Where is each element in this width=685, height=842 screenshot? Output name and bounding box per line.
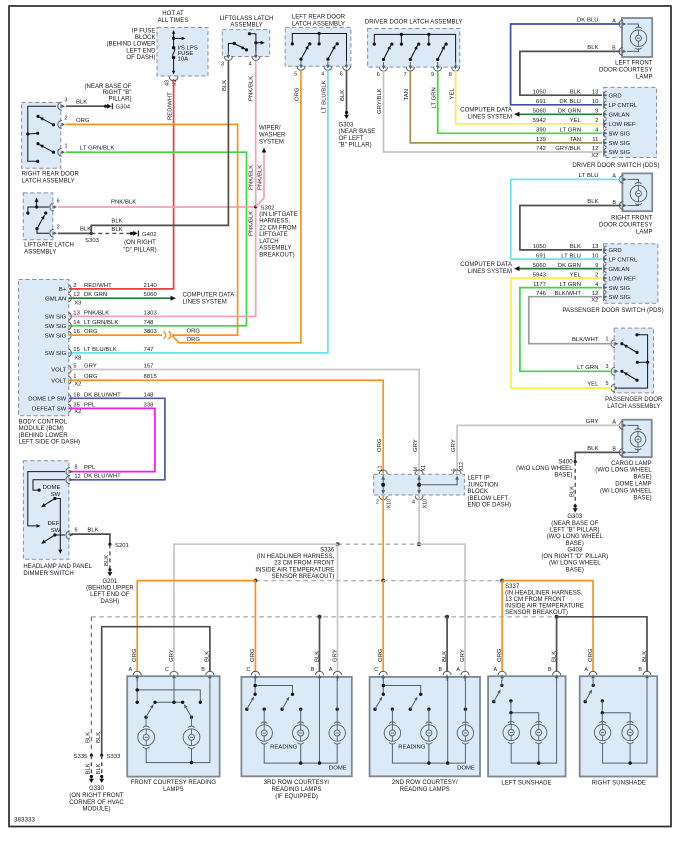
svg-text:SW SIG: SW SIG bbox=[45, 333, 67, 339]
svg-text:2: 2 bbox=[65, 116, 68, 122]
wire BLK 1050 lamp B to DDS GRD bbox=[520, 51, 621, 95]
sunshade switch bbox=[592, 684, 595, 687]
wire ORG BCM SW SIG to breakout bbox=[69, 334, 162, 336]
svg-text:C: C bbox=[374, 667, 378, 673]
splice S201 bbox=[108, 543, 111, 546]
passenger latch connector pin 5 bbox=[611, 384, 615, 392]
front lamp bulb 2 bbox=[183, 729, 200, 746]
reading switch blade 2 bbox=[409, 708, 412, 711]
svg-text:1: 1 bbox=[65, 144, 68, 150]
svg-text:VOLT: VOLT bbox=[51, 368, 66, 374]
left front door courtesy lamp box bbox=[622, 18, 652, 57]
svg-text:5: 5 bbox=[605, 381, 608, 387]
svg-text:PNK/BLK: PNK/BLK bbox=[249, 165, 255, 190]
svg-text:B: B bbox=[548, 667, 552, 673]
svg-text:35: 35 bbox=[73, 402, 80, 408]
svg-text:1303: 1303 bbox=[144, 310, 158, 316]
svg-text:G201: G201 bbox=[102, 579, 117, 585]
wire DK BLU 691 lamp A to DDS LP CNTRL bbox=[511, 24, 621, 105]
svg-text:"B" PILLAR): "B" PILLAR) bbox=[339, 143, 372, 149]
DDS pin 2 YEL LOW REF bbox=[604, 120, 607, 128]
svg-text:BLK: BLK bbox=[222, 80, 228, 91]
splice S337 bbox=[500, 579, 504, 583]
DDS pin 10 DK BLU LP CNTRL bbox=[604, 101, 607, 109]
node BLK bus left sunshade tap bbox=[555, 615, 559, 619]
wire DK GRN 5060 DDS GMLAN to computer data lines bbox=[516, 113, 602, 115]
svg-text:G330: G330 bbox=[89, 786, 104, 792]
driver door latch internals bbox=[374, 34, 455, 62]
svg-text:BLK: BLK bbox=[587, 45, 598, 51]
svg-text:GRD: GRD bbox=[609, 93, 622, 99]
svg-text:5: 5 bbox=[294, 72, 297, 78]
svg-text:8: 8 bbox=[449, 72, 452, 78]
body control module BCM box bbox=[19, 280, 69, 416]
reading lamp bulb 2 bbox=[421, 725, 437, 741]
svg-text:READING: READING bbox=[270, 745, 298, 751]
svg-text:DOME LP SW: DOME LP SW bbox=[28, 397, 66, 403]
bottom rail and pin B vertical bbox=[264, 744, 337, 764]
svg-text:ORG: ORG bbox=[250, 648, 256, 662]
svg-text:PASSENGER DOOR SWITCH (PDS): PASSENGER DOOR SWITCH (PDS) bbox=[562, 308, 663, 314]
svg-text:SYSTEM: SYSTEM bbox=[259, 139, 284, 145]
svg-text:(BEHIND LOWER: (BEHIND LOWER bbox=[107, 42, 157, 48]
svg-text:S303: S303 bbox=[85, 238, 100, 244]
svg-text:READING LAMPS: READING LAMPS bbox=[400, 787, 450, 793]
svg-text:2ND ROW COURTESY/: 2ND ROW COURTESY/ bbox=[392, 780, 458, 786]
svg-text:BLK: BLK bbox=[205, 651, 211, 662]
svg-text:LATCH ASSEMBLY: LATCH ASSEMBLY bbox=[607, 404, 660, 410]
right rear door latch assembly box bbox=[22, 103, 61, 169]
svg-text:RED/WHT: RED/WHT bbox=[84, 283, 112, 289]
svg-text:DK GRN: DK GRN bbox=[84, 292, 107, 298]
svg-text:SENSOR BREAKOUT): SENSOR BREAKOUT) bbox=[271, 574, 334, 580]
svg-text:S333: S333 bbox=[107, 754, 122, 760]
svg-text:748: 748 bbox=[144, 320, 155, 326]
svg-text:BASE): BASE) bbox=[566, 567, 584, 573]
svg-text:8: 8 bbox=[75, 464, 78, 470]
svg-text:HEADLAMP AND PANEL: HEADLAMP AND PANEL bbox=[23, 564, 92, 570]
svg-text:(BELOW LEFT: (BELOW LEFT bbox=[468, 496, 509, 502]
driver door latch connector pin 8 bbox=[452, 67, 460, 71]
svg-text:SW SIG: SW SIG bbox=[45, 351, 67, 357]
wire BLK dashed ground bus headliner bbox=[91, 616, 557, 618]
svg-text:DEFEAT SW: DEFEAT SW bbox=[32, 407, 67, 413]
right rear door latch internals bbox=[28, 106, 56, 161]
DDS pin 13 BLK GRD bbox=[604, 91, 607, 99]
wire ORG tap down to 3rd row lamps pin C bbox=[254, 581, 256, 672]
wire BLK dimmer pin 6 to S201 bbox=[71, 534, 110, 544]
svg-text:READING: READING bbox=[398, 745, 426, 751]
svg-text:A: A bbox=[129, 667, 133, 673]
svg-text:LIFTGATE: LIFTGATE bbox=[259, 232, 288, 238]
BCM pin 14 LT GRN/BLK SW SIG bbox=[68, 322, 71, 330]
wire ORG bus dashed left segment bbox=[255, 580, 383, 582]
svg-text:VOLT: VOLT bbox=[51, 378, 66, 384]
driver door latch connector pin 7 bbox=[406, 67, 414, 71]
svg-text:LAMPS: LAMPS bbox=[163, 787, 184, 793]
svg-text:LT BLU: LT BLU bbox=[579, 173, 599, 179]
svg-text:BLK: BLK bbox=[80, 226, 91, 232]
reading lamp bulb 2 bbox=[293, 725, 309, 741]
svg-text:LINES SYSTEM: LINES SYSTEM bbox=[468, 115, 512, 121]
svg-text:S337: S337 bbox=[505, 584, 520, 590]
svg-text:S302: S302 bbox=[261, 205, 275, 211]
liftgate connector pin 2 bbox=[50, 229, 54, 237]
wire BLK S333 to ground dashed bbox=[101, 755, 103, 776]
svg-text:BLK: BLK bbox=[96, 732, 102, 743]
svg-text:(BEHIND UPPER: (BEHIND UPPER bbox=[86, 586, 134, 592]
wire ORG junction block pin2 down to orange bus node bbox=[382, 496, 384, 581]
svg-text:DASH): DASH) bbox=[100, 599, 119, 605]
connector pin A ORG bbox=[498, 671, 506, 675]
svg-text:LAMP: LAMP bbox=[636, 75, 653, 81]
lamp pivot dots bbox=[391, 708, 394, 711]
wire BLK S303 to G402 dashed bbox=[91, 232, 131, 234]
svg-text:G304: G304 bbox=[116, 105, 131, 111]
wire BLK tap down to 2nd row lamps pin B bbox=[446, 617, 448, 672]
sunshade lamp bulb 1 bbox=[594, 724, 610, 740]
BCM pin 13 PNK/BLK SW SIG bbox=[68, 312, 71, 320]
junction block top connector M X1 bbox=[417, 476, 421, 480]
splice S333 bbox=[100, 754, 103, 757]
dimmer dome switch blade bbox=[53, 497, 56, 500]
lamp bulb right front door courtesy bbox=[630, 185, 647, 202]
svg-text:INSIDE AIR TEMPERATURE: INSIDE AIR TEMPERATURE bbox=[505, 603, 584, 609]
svg-text:ORG: ORG bbox=[187, 328, 201, 334]
svg-text:LT BLU/BLK: LT BLU/BLK bbox=[84, 347, 117, 353]
svg-text:SW SIG: SW SIG bbox=[609, 286, 631, 292]
dome lamp bulb 3 bbox=[329, 725, 345, 741]
connector pin B BLK bbox=[206, 671, 214, 675]
wire GRY S336 down to 3rd row lamps pin A bbox=[337, 544, 339, 672]
svg-text:DOOR COURTESY: DOOR COURTESY bbox=[599, 68, 653, 74]
svg-text:B+: B+ bbox=[59, 287, 67, 293]
liftglass connector pin 4 bbox=[252, 57, 260, 61]
node BLK bus 2nd row tap bbox=[445, 615, 449, 619]
svg-text:LEFT SUNSHADE: LEFT SUNSHADE bbox=[501, 781, 551, 787]
svg-text:ORG: ORG bbox=[84, 329, 98, 335]
wire PNK/BLK S302 branch to wiper/washer system bbox=[256, 150, 264, 207]
svg-text:BLK: BLK bbox=[551, 651, 557, 662]
driver door latch connector pin 9 bbox=[434, 67, 442, 71]
svg-text:LEFT FRONT: LEFT FRONT bbox=[615, 61, 653, 67]
svg-text:22 CM FROM: 22 CM FROM bbox=[259, 225, 297, 231]
svg-text:OF DASH): OF DASH) bbox=[126, 55, 155, 61]
wire GRY bus S336 to front lamps pin C bbox=[174, 544, 338, 672]
svg-text:END OF DASH): END OF DASH) bbox=[468, 503, 512, 509]
3rd row courtesy reading lamps box bbox=[241, 677, 351, 776]
svg-text:X2: X2 bbox=[591, 298, 598, 304]
BCM pin 16 ORG SW SIG bbox=[68, 331, 71, 339]
svg-text:BLK: BLK bbox=[111, 219, 122, 225]
wire PPL 338 BCM to dimmer switch pin 8 bbox=[69, 408, 155, 471]
wire BLK 1050 right lamp B to PDS GRD bbox=[520, 206, 621, 250]
svg-text:C: C bbox=[246, 667, 250, 673]
svg-text:6: 6 bbox=[57, 198, 60, 204]
svg-text:9: 9 bbox=[431, 72, 434, 78]
wire BLK S400 to ground G303 dashed bbox=[574, 462, 576, 506]
svg-text:BLK: BLK bbox=[340, 90, 346, 101]
inline connector ORG breakout arcs bbox=[164, 331, 166, 339]
svg-text:BLOCK: BLOCK bbox=[135, 35, 156, 41]
svg-text:GMLAN: GMLAN bbox=[45, 296, 66, 302]
svg-text:LT BLU/BLK: LT BLU/BLK bbox=[322, 80, 328, 113]
junction block bottom connector 2 X10 bbox=[379, 496, 387, 500]
svg-text:GRY: GRY bbox=[586, 419, 599, 425]
BCM pin 15 LT BLU/BLK SW SIG bbox=[68, 349, 71, 357]
sunshade switch bbox=[500, 684, 503, 687]
svg-text:S336: S336 bbox=[320, 548, 335, 554]
svg-text:PNK/BLK: PNK/BLK bbox=[249, 211, 255, 236]
PDS pin 12 BLK/WHT SW SIG bbox=[604, 293, 607, 301]
left rear door latch assembly box bbox=[285, 27, 351, 66]
svg-text:BASE): BASE) bbox=[554, 473, 572, 479]
right front door courtesy lamp box bbox=[622, 173, 652, 211]
svg-text:X10: X10 bbox=[387, 499, 393, 509]
svg-text:READING LAMPS: READING LAMPS bbox=[272, 787, 322, 793]
svg-text:X2: X2 bbox=[74, 409, 81, 415]
svg-text:B: B bbox=[201, 667, 205, 673]
svg-text:"D" PILLAR): "D" PILLAR) bbox=[123, 247, 157, 253]
svg-text:GRY: GRY bbox=[413, 439, 419, 452]
svg-text:18: 18 bbox=[73, 392, 80, 398]
dimmer connector pin 6 bbox=[66, 531, 70, 539]
svg-text:RED/WHT: RED/WHT bbox=[168, 92, 174, 120]
connector pin B left front lamp bbox=[619, 47, 623, 55]
BCM pin 1 ORG VOLT bbox=[68, 376, 71, 384]
svg-text:LEFT REAR DOOR: LEFT REAR DOOR bbox=[292, 15, 346, 21]
node orange bus 3rd row tap bbox=[253, 579, 257, 583]
wire YEL 5942 driver latch pin 8 to DDS LOW REF bbox=[456, 70, 602, 124]
wire BLK cargo lamp to S400 bbox=[575, 452, 621, 461]
connector pin A right front lamp bbox=[619, 175, 623, 183]
cargo lamp box bbox=[622, 420, 651, 457]
svg-text:GRY/BLK: GRY/BLK bbox=[377, 88, 383, 114]
svg-text:GRY: GRY bbox=[84, 364, 97, 370]
left sunshade box bbox=[488, 676, 565, 776]
svg-text:3: 3 bbox=[65, 98, 68, 104]
svg-text:YEL: YEL bbox=[449, 88, 455, 100]
svg-text:(BEHIND LOWER: (BEHIND LOWER bbox=[19, 433, 69, 439]
reading/dome lamps internal network bbox=[255, 678, 292, 694]
ground G330 pair bbox=[90, 775, 93, 778]
svg-text:ORG: ORG bbox=[84, 374, 98, 380]
svg-text:(W/ LONG WHEEL: (W/ LONG WHEEL bbox=[549, 561, 601, 567]
svg-text:2: 2 bbox=[73, 283, 76, 289]
liftgate latch internals bbox=[35, 198, 39, 202]
svg-text:INSIDE AIR TEMPERATURE: INSIDE AIR TEMPERATURE bbox=[255, 567, 334, 573]
svg-text:12: 12 bbox=[75, 474, 81, 480]
DDS pin 12 GRY/BLK SW SIG bbox=[604, 148, 607, 156]
connector X1 at fuse block output bbox=[169, 77, 178, 81]
lamp pivot dots bbox=[263, 708, 266, 711]
svg-text:GRY: GRY bbox=[332, 649, 338, 662]
svg-text:WASHER: WASHER bbox=[259, 132, 286, 138]
svg-text:4: 4 bbox=[321, 72, 324, 78]
svg-text:LOW REF: LOW REF bbox=[609, 122, 637, 128]
svg-text:LEFT END: LEFT END bbox=[126, 48, 156, 54]
left rear door connector pin 6 bbox=[343, 66, 351, 70]
svg-text:X1: X1 bbox=[421, 465, 427, 472]
wire BLK dashed down to S335 bbox=[90, 617, 92, 756]
connector pin A ORG bbox=[133, 671, 141, 675]
svg-text:LT GRN/BLK: LT GRN/BLK bbox=[84, 320, 118, 326]
svg-text:PNK/BLK: PNK/BLK bbox=[248, 76, 254, 101]
svg-text:BLOCK: BLOCK bbox=[468, 489, 489, 495]
wire BLK liftgate pin 2 to S303 bbox=[58, 232, 91, 234]
svg-text:RIGHT "B": RIGHT "B" bbox=[103, 90, 132, 96]
driver door latch assembly box bbox=[368, 29, 460, 68]
svg-text:DIMMER SWITCH: DIMMER SWITCH bbox=[23, 571, 73, 577]
svg-text:SW: SW bbox=[51, 528, 61, 534]
svg-text:4: 4 bbox=[249, 62, 252, 68]
svg-text:13 CM FROM FRONT: 13 CM FROM FRONT bbox=[505, 597, 565, 603]
svg-text:ORG: ORG bbox=[497, 648, 503, 662]
svg-text:LEFT IP: LEFT IP bbox=[468, 476, 490, 482]
junction block top connector 5 X12 bbox=[455, 476, 459, 480]
svg-text:DOME: DOME bbox=[329, 765, 347, 771]
reading switch blade 1 bbox=[245, 708, 248, 711]
svg-text:383333: 383333 bbox=[14, 817, 35, 824]
svg-text:7: 7 bbox=[404, 72, 407, 78]
svg-text:16: 16 bbox=[73, 329, 80, 335]
svg-text:X10: X10 bbox=[423, 499, 429, 509]
svg-text:SENSOR BREAKOUT): SENSOR BREAKOUT) bbox=[505, 610, 568, 616]
svg-text:157: 157 bbox=[144, 364, 154, 370]
svg-text:(IF EQUIPPED): (IF EQUIPPED) bbox=[275, 794, 318, 800]
svg-text:COMPUTER DATA: COMPUTER DATA bbox=[460, 262, 512, 268]
svg-text:(IN HEADLINER HARNESS,: (IN HEADLINER HARNESS, bbox=[257, 554, 335, 560]
wire GRY/BLK 742 driver latch pin 6 to DDS SW SIG bbox=[384, 70, 603, 152]
2nd row courtesy reading lamps box bbox=[370, 677, 480, 776]
connector pin A GRY bbox=[334, 671, 342, 675]
svg-text:COMPUTER DATA: COMPUTER DATA bbox=[460, 108, 512, 114]
svg-text:PNK/BLK: PNK/BLK bbox=[84, 310, 109, 316]
svg-text:CORNER OF HVAC: CORNER OF HVAC bbox=[69, 800, 124, 806]
svg-text:43: 43 bbox=[165, 80, 171, 86]
ground G304 bbox=[104, 105, 107, 108]
svg-text:10A: 10A bbox=[178, 57, 189, 63]
svg-text:(NEAR BASE OF: (NEAR BASE OF bbox=[85, 84, 132, 90]
svg-text:BODY CONTROL: BODY CONTROL bbox=[19, 419, 68, 425]
svg-text:BLK: BLK bbox=[642, 651, 648, 662]
left rear door connector pin 5 bbox=[297, 66, 305, 70]
svg-text:14: 14 bbox=[73, 320, 80, 326]
svg-text:PPL: PPL bbox=[84, 465, 96, 471]
svg-text:338: 338 bbox=[144, 402, 155, 408]
svg-text:BLK: BLK bbox=[442, 651, 448, 662]
svg-text:ORG: ORG bbox=[76, 118, 90, 124]
connector pin C ORG bbox=[251, 671, 259, 675]
passenger door switch PDS box bbox=[604, 244, 658, 303]
svg-text:BLK: BLK bbox=[96, 763, 102, 774]
svg-text:3803: 3803 bbox=[144, 329, 158, 335]
svg-text:BLK: BLK bbox=[587, 446, 598, 452]
svg-text:WIPER/: WIPER/ bbox=[259, 125, 281, 131]
svg-text:OF LEFT: OF LEFT bbox=[339, 136, 364, 142]
liftgate latch assembly box bbox=[23, 193, 53, 240]
svg-text:DOOR COURTESY: DOOR COURTESY bbox=[599, 222, 653, 228]
fuse output wire bbox=[173, 58, 175, 72]
svg-text:X2: X2 bbox=[74, 382, 81, 388]
BCM pin 35 PPL DEFEAT SW bbox=[68, 404, 71, 412]
reading lamp bulb 1 bbox=[256, 725, 272, 741]
lamp bulb left front door courtesy bbox=[630, 30, 647, 47]
wire BLK right rear latch pin 3 to G304 bbox=[66, 105, 105, 107]
svg-text:BLK/WHT: BLK/WHT bbox=[572, 337, 599, 343]
svg-text:SW SIG: SW SIG bbox=[609, 141, 631, 147]
passenger door latch assembly box bbox=[614, 328, 653, 393]
svg-text:RIGHT REAR DOOR: RIGHT REAR DOOR bbox=[22, 171, 80, 177]
svg-text:(NEAR BASE: (NEAR BASE bbox=[339, 129, 376, 135]
svg-text:ORG: ORG bbox=[132, 648, 138, 662]
wire BLK S201 to G201 dashed bbox=[109, 544, 111, 569]
svg-text:BREAKOUT): BREAKOUT) bbox=[259, 252, 294, 258]
svg-text:CARGO LAMP: CARGO LAMP bbox=[611, 461, 652, 467]
sunshade lamp feed tee bbox=[601, 699, 604, 702]
sunshade lamp feed tee bbox=[509, 699, 512, 702]
svg-text:BLK: BLK bbox=[104, 555, 110, 566]
svg-text:X2: X2 bbox=[591, 153, 598, 159]
svg-text:SW SIG: SW SIG bbox=[45, 315, 67, 321]
connector pin B BLK bbox=[316, 671, 324, 675]
ground G402 bbox=[130, 232, 133, 235]
svg-text:G402: G402 bbox=[142, 232, 157, 238]
splice S400 bbox=[574, 460, 577, 463]
svg-text:LIFTGLASS LATCH: LIFTGLASS LATCH bbox=[220, 16, 274, 22]
wire DK BLU/WHT 148 BCM to dimmer switch pin 12 bbox=[69, 398, 165, 480]
svg-text:ORG: ORG bbox=[187, 337, 201, 343]
svg-text:(IN LIFTGATE: (IN LIFTGATE bbox=[259, 212, 298, 218]
wire LT GRN/BLK right rear latch pin 1 to BCM bbox=[66, 152, 247, 326]
svg-text:TAN: TAN bbox=[404, 89, 410, 101]
wire LT GRN 390 driver latch pin 9 to DDS SW SIG bbox=[438, 70, 602, 133]
svg-text:G303: G303 bbox=[339, 122, 354, 128]
svg-text:A: A bbox=[329, 667, 333, 673]
svg-text:(W/O LONG WHEEL: (W/O LONG WHEEL bbox=[516, 466, 573, 472]
svg-text:BLK: BLK bbox=[86, 732, 92, 743]
svg-text:S335: S335 bbox=[74, 754, 89, 760]
wire ORG 8815 BCM VOLT to junction block bbox=[69, 380, 383, 473]
svg-text:15: 15 bbox=[73, 347, 80, 353]
svg-text:BLK: BLK bbox=[587, 199, 598, 205]
svg-text:GMLAN: GMLAN bbox=[609, 113, 630, 119]
svg-text:BASE): BASE) bbox=[566, 541, 584, 547]
svg-text:ORG: ORG bbox=[588, 648, 594, 662]
svg-text:23 CM FROM FRONT: 23 CM FROM FRONT bbox=[274, 561, 334, 567]
svg-text:13: 13 bbox=[73, 310, 80, 316]
DDS pin 9 DK GRN GMLAN bbox=[604, 110, 607, 118]
wire ORG junction node down to 2nd row lamps pin C bbox=[382, 581, 384, 672]
svg-text:2140: 2140 bbox=[144, 283, 158, 289]
svg-text:LT GRN: LT GRN bbox=[577, 365, 598, 371]
svg-text:DOME: DOME bbox=[43, 485, 61, 491]
svg-text:B: B bbox=[438, 667, 442, 673]
sunshade lamp bulb 2 bbox=[531, 724, 547, 740]
liftglass latch assembly box bbox=[222, 30, 269, 57]
ground G201 bbox=[108, 568, 111, 571]
passenger latch connector pin 3 bbox=[611, 367, 615, 375]
svg-text:X3: X3 bbox=[74, 301, 82, 307]
svg-text:L1: L1 bbox=[377, 465, 383, 471]
svg-text:3RD ROW COURTESY/: 3RD ROW COURTESY/ bbox=[264, 780, 330, 786]
svg-text:ORG: ORG bbox=[377, 438, 383, 452]
svg-text:DOME: DOME bbox=[457, 765, 475, 771]
junction block top connector L1 bbox=[381, 476, 385, 480]
front lamps internal switch network bbox=[137, 678, 200, 702]
svg-text:RIGHT FRONT: RIGHT FRONT bbox=[611, 215, 653, 221]
wire DK GRN 5060 PDS GMLAN to computer data lines bbox=[516, 268, 602, 270]
